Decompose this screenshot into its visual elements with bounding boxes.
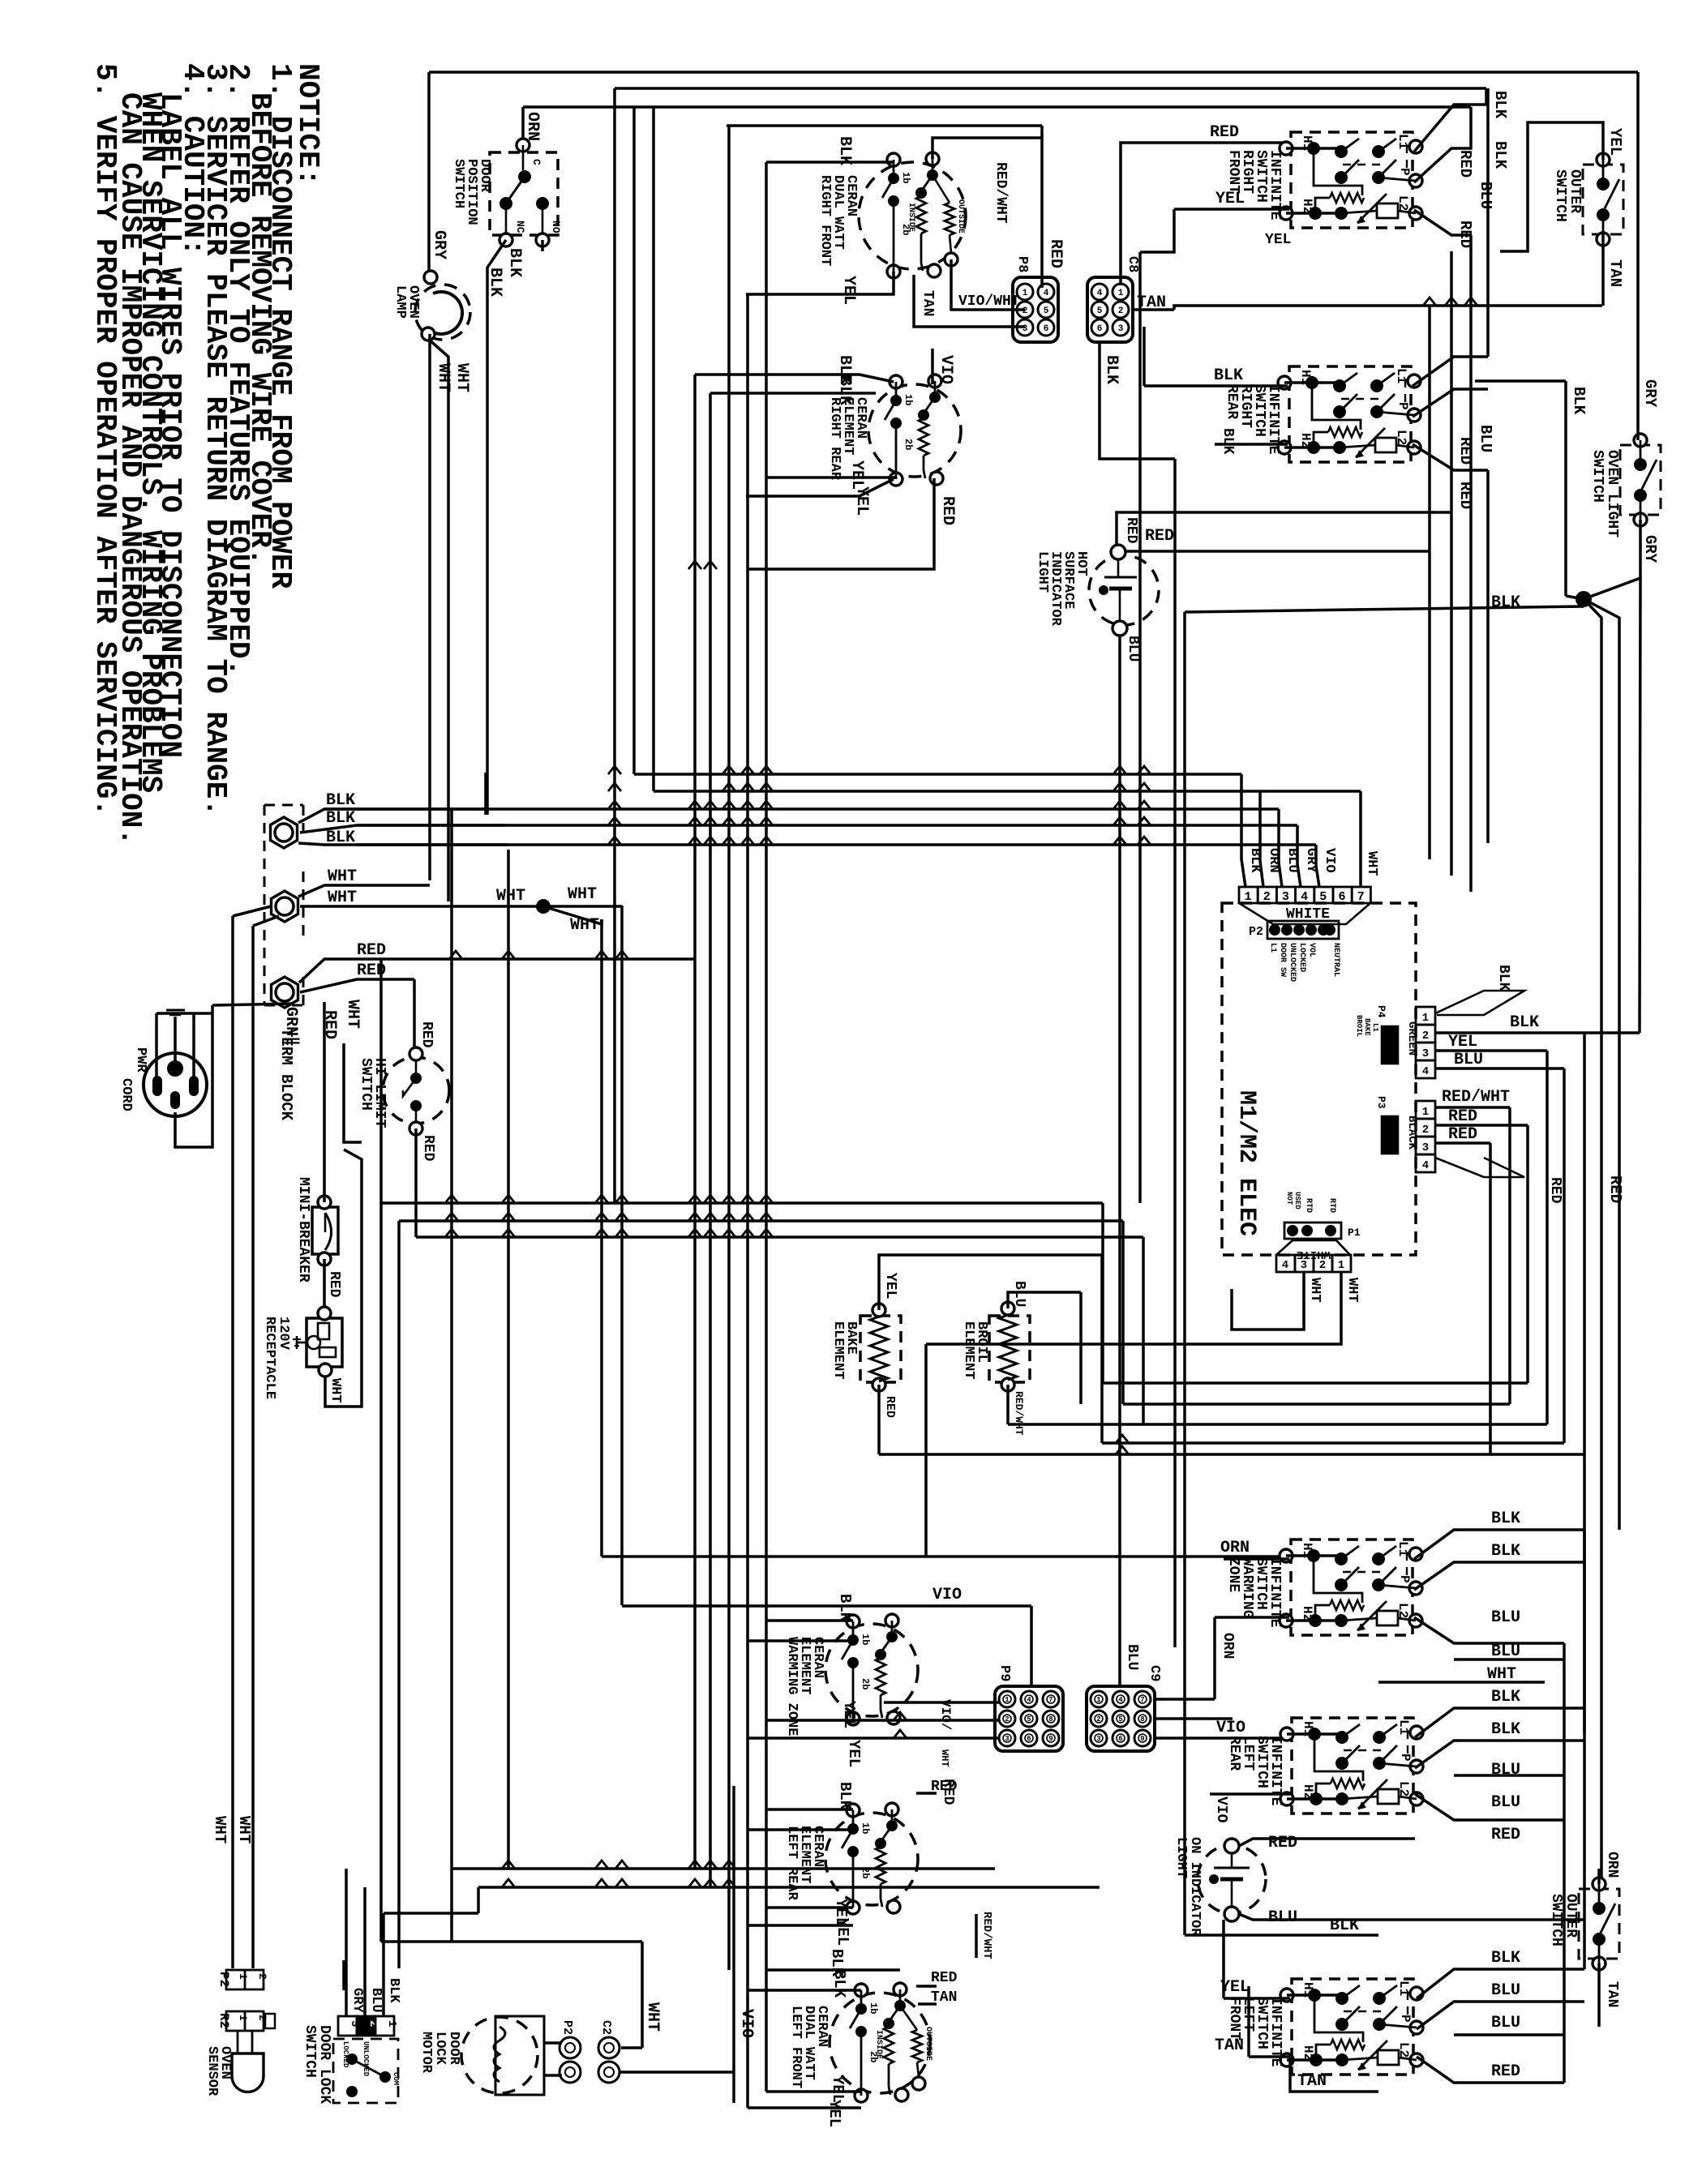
svg-text:2: 2: [1005, 1715, 1009, 1724]
svg-text:REAR: REAR: [1226, 1736, 1242, 1771]
svg-text:BLU: BLU: [1477, 182, 1494, 209]
svg-text:2b: 2b: [860, 1867, 871, 1878]
svg-text:4: 4: [1097, 289, 1103, 298]
svg-text:PWR: PWR: [133, 1047, 148, 1073]
svg-text:2: 2: [1319, 1259, 1326, 1272]
svg-text:BLK: BLK: [1220, 428, 1236, 455]
wire VIO drop to P9: [1030, 1606, 1033, 1688]
surface element CERAN ELEMENT WARMING ZONE: [825, 1624, 918, 1716]
svg-text:1b: 1b: [868, 2002, 879, 2014]
wire GRY bottom + junction: [1566, 520, 1640, 599]
right bundle y=1757: [1143, 1423, 1547, 1426]
wire from door switch NO: [541, 240, 544, 251]
svg-text:P1: P1: [1348, 1227, 1361, 1239]
mid bus y=1042: [357, 843, 1316, 846]
svg-text:RED: RED: [1210, 123, 1239, 142]
wires BLK to WZ element: [766, 1619, 853, 1622]
svg-text:ORN: ORN: [1220, 1633, 1236, 1659]
svg-text:5: 5: [1118, 1715, 1122, 1724]
term block stud RED: [272, 977, 298, 1008]
wire RED/WHT: [932, 138, 1042, 159]
wire ORN to WZ H2: [1215, 1616, 1289, 1619]
svg-text:REAR: REAR: [1224, 384, 1240, 419]
mid bus y=955: [634, 773, 1241, 776]
svg-text:5: 5: [1044, 306, 1049, 316]
wire WHT x=424: [344, 1043, 362, 1142]
svg-text:YEL: YEL: [834, 1918, 851, 1946]
right rails from board wires: [1583, 1033, 1586, 1732]
wire BLK vertical x=1461: [1183, 612, 1186, 1935]
svg-text:1: 1: [237, 2015, 249, 2021]
svg-text:C: C: [530, 159, 542, 165]
wire VIO/WHT to P8 pin2: [951, 259, 1025, 310]
wires from C9 right: [1155, 1698, 1215, 1701]
wire verticals to bottom elements: [727, 1718, 731, 1970]
svg-text:WHT: WHT: [1364, 851, 1379, 876]
svg-text:7: 7: [1140, 1696, 1144, 1704]
svg-text:USED: USED: [1293, 1192, 1301, 1210]
svg-text:5: 5: [1097, 306, 1103, 316]
svg-text:9: 9: [1048, 1735, 1052, 1743]
svg-text:TAN: TAN: [920, 290, 936, 316]
svg-text:RED: RED: [1268, 1834, 1297, 1852]
wire RED term to breaker: [323, 1002, 326, 1202]
svg-text:H2: H2: [1300, 199, 1314, 214]
svg-text:2: 2: [1096, 1715, 1100, 1724]
wire BLK from door switch NC: [487, 240, 506, 815]
svg-text:RED: RED: [931, 1970, 958, 1986]
svg-text:P: P: [1398, 2015, 1413, 2023]
svg-text:L1: L1: [1268, 943, 1277, 953]
wire BLK to RR H1: [1144, 384, 1288, 388]
wire TAN vert: [1247, 1986, 1250, 2057]
wire TAN outer switch: [1601, 234, 1605, 306]
svg-text:1: 1: [385, 2020, 398, 2027]
svg-text:P9: P9: [997, 1665, 1012, 1681]
svg-text:BLACK: BLACK: [1405, 1116, 1418, 1150]
svg-text:RED: RED: [326, 1271, 342, 1298]
bake element: [860, 1316, 901, 1382]
svg-text:WHT: WHT: [235, 1816, 253, 1844]
svg-text:RED: RED: [1491, 2062, 1520, 2081]
wire WHT into pin7: [1359, 791, 1362, 887]
svg-text:2: 2: [1118, 306, 1124, 316]
surface element CERAN ELEMENT LEFT REAR: [825, 1813, 918, 1905]
svg-text:BLK: BLK: [486, 268, 504, 297]
svg-text:M1/M2 ELEC: M1/M2 ELEC: [1233, 1090, 1260, 1236]
wire bundle into P9: [884, 1701, 999, 1704]
svg-text:BLK: BLK: [1491, 141, 1509, 169]
wire VIO to LR switch: [1251, 1736, 1287, 1740]
wire breaker to receptacle: [323, 1259, 326, 1312]
svg-text:4: 4: [1282, 1259, 1288, 1272]
wires door lock bundle: [345, 1869, 348, 1990]
svg-text:SWITCH: SWITCH: [451, 159, 466, 208]
wire vertical x=565: [450, 1869, 453, 1942]
svg-text:4: 4: [1044, 289, 1049, 298]
wire TAN to P8 pin3: [914, 275, 1025, 327]
wire vertical x=742: [600, 919, 603, 1557]
infinite switch WARMING ZONE: [1291, 1540, 1413, 1635]
svg-text:3: 3: [1118, 324, 1124, 334]
svg-text:GRY: GRY: [349, 1988, 365, 2013]
svg-text:WHT: WHT: [434, 363, 452, 392]
svg-text:VIO/: VIO/: [938, 1699, 953, 1730]
wire x1411 vertical: [1143, 327, 1146, 386]
svg-text:L2: L2: [1395, 1603, 1410, 1618]
wire corner x=1385: [1121, 1221, 1125, 1404]
svg-text:BLU: BLU: [1125, 636, 1141, 662]
svg-text:YEL: YEL: [845, 1740, 863, 1767]
door lock motor: [461, 2017, 538, 2093]
svg-text:MOTOR: MOTOR: [418, 2032, 434, 2074]
wire WHT horizontal: [1378, 1681, 1545, 1684]
svg-text:1: 1: [1005, 1696, 1010, 1704]
wire RED vertical2: [1428, 306, 1431, 859]
P1 trapezoid: [1276, 1240, 1350, 1255]
svg-text:VIO: VIO: [932, 1586, 962, 1604]
svg-text:1: 1: [1422, 1106, 1429, 1119]
svg-text:L1: L1: [1395, 134, 1410, 149]
svg-text:NOT: NOT: [1285, 1192, 1293, 1205]
wire L1 RF to bus: [1414, 88, 1486, 152]
wire TAN to LF H2: [1249, 2055, 1290, 2058]
wire P4 pin2 BLK: [1435, 1031, 1640, 1034]
wire WZ L2: [1414, 1617, 1564, 1643]
svg-text:GRY: GRY: [1641, 535, 1659, 563]
right bundle y=1706: [1103, 1381, 1528, 1385]
mini-breaker: [312, 1207, 338, 1254]
power cord wires: [155, 1013, 158, 1078]
connector P9: [995, 1686, 1063, 1751]
svg-text:3: 3: [1301, 1259, 1307, 1272]
wire L2 RF: [1414, 210, 1471, 235]
svg-text:YEL: YEL: [825, 2100, 843, 2127]
wire vertical x=809: [652, 107, 655, 791]
wire LR L1: [1415, 1708, 1584, 1737]
door lock switch: [333, 2039, 398, 2103]
svg-text:SWITCH: SWITCH: [1552, 169, 1568, 222]
svg-text:R2: R2: [217, 2013, 231, 2028]
svg-text:L1: L1: [1396, 1981, 1411, 1996]
wire right vert x=1975 down: [1584, 599, 1601, 1886]
wire YEL vert: [1222, 1920, 1225, 1998]
svg-text:YEL: YEL: [847, 460, 866, 490]
svg-text:ELEMENT: ELEMENT: [830, 1321, 846, 1379]
svg-text:BLU: BLU: [1491, 1608, 1520, 1627]
right bundle y=1780: [1102, 1441, 1564, 1445]
wire YEL to LF H1: [1224, 1997, 1290, 2000]
svg-text:BLK: BLK: [1491, 1720, 1520, 1739]
svg-text:WHT: WHT: [328, 889, 357, 907]
svg-text:H2: H2: [1298, 433, 1313, 448]
lower bus y=1920 ORN: [602, 1555, 1288, 1558]
svg-text:WHT: WHT: [939, 1749, 950, 1767]
wires into door lock: [342, 1960, 345, 1990]
svg-text:BLK: BLK: [1491, 1688, 1520, 1707]
wire BLU2: [1454, 1774, 1564, 1777]
svg-text:GREEN: GREEN: [1405, 1021, 1418, 1056]
svg-text:INSIDE: INSIDE: [874, 2030, 883, 2059]
connector R2: [226, 2011, 264, 2031]
wire broil bottom to bundle: [1008, 1423, 1143, 1426]
svg-text:YEL: YEL: [840, 1701, 858, 1728]
svg-text:BLU: BLU: [1491, 1793, 1520, 1812]
wire TAN bottom: [1290, 2057, 1378, 2092]
wire P3 pin2 RED: [1435, 1124, 1528, 1127]
wire vertical x=1142: [924, 1344, 928, 1557]
svg-text:2b: 2b: [860, 1678, 871, 1689]
svg-text:LIGHT: LIGHT: [1035, 551, 1050, 593]
svg-text:RIGHT REAR: RIGHT REAR: [827, 397, 842, 481]
connector C8: [1087, 277, 1133, 342]
svg-text:FRONT: FRONT: [1226, 1997, 1242, 2041]
wire RED/WHT vertical x=1285: [1040, 126, 1044, 285]
svg-text:3: 3: [1005, 1735, 1009, 1743]
svg-text:BLU: BLU: [1491, 2014, 1520, 2032]
wires YEL from LR: [766, 1906, 853, 1909]
svg-text:P2: P2: [560, 2020, 574, 2035]
svg-text:RED: RED: [1456, 482, 1474, 509]
wire P3 pin3 RED: [1435, 1141, 1490, 1145]
svg-text:BLK: BLK: [1247, 848, 1263, 873]
svg-text:VIO: VIO: [1322, 848, 1337, 873]
svg-text:1b: 1b: [900, 172, 911, 183]
svg-text:RED/WHT: RED/WHT: [992, 162, 1009, 224]
svg-text:4: 4: [1118, 1696, 1123, 1704]
svg-text:8: 8: [1048, 1715, 1052, 1724]
wire motor to P2: [544, 2041, 562, 2045]
svg-text:BLK: BLK: [1510, 1013, 1539, 1032]
svg-text:BLK: BLK: [1491, 91, 1509, 119]
connector P2 (sensor): [226, 1970, 264, 1989]
svg-text:RED: RED: [1145, 527, 1174, 546]
svg-text:5: 5: [1027, 1715, 1031, 1724]
P1 header boxes: [1276, 1255, 1295, 1272]
svg-text:MINI-BREAKER: MINI-BREAKER: [295, 1177, 311, 1283]
svg-text:RED: RED: [1606, 1176, 1624, 1203]
wire WHT from P1 pin3: [1232, 1272, 1304, 1330]
svg-text:RED: RED: [1456, 437, 1474, 465]
wire BLU horizontal: [1454, 1658, 1564, 1661]
wire vertical x=857: [693, 375, 697, 1869]
svg-text:7: 7: [1048, 1696, 1052, 1704]
wire GRY top: [1636, 72, 1640, 440]
wire vertical x=922: [746, 294, 749, 1736]
wires BLK from term block: [298, 809, 486, 823]
wire P4 pin1 BLK flag: [1435, 991, 1524, 1015]
wire RED vertical: [1450, 251, 1453, 876]
svg-text:H1: H1: [1300, 135, 1314, 151]
svg-text:3: 3: [1422, 1047, 1429, 1060]
wire C2 pin2 to VIO: [619, 2071, 734, 2074]
surface element CERAN DUAL WATT LEFT FRONT: [830, 1993, 930, 2093]
svg-text:1: 1: [1338, 1259, 1344, 1272]
svg-text:GRN‖: GRN‖: [281, 1007, 300, 1046]
svg-text:BLK: BLK: [326, 809, 355, 828]
svg-text:C8: C8: [1125, 256, 1140, 272]
svg-text:P2: P2: [1249, 925, 1263, 939]
svg-text:3: 3: [1422, 1141, 1429, 1154]
wire WHT receptacle loop: [325, 1150, 362, 1407]
svg-text:1: 1: [1096, 1696, 1101, 1704]
M1/M2 ELEC control board box: [1222, 903, 1416, 1255]
bottom bus y=2305: [452, 1867, 995, 1870]
wire TAN outer bottom: [1597, 1963, 1601, 2027]
wire VIO from RR top: [931, 349, 934, 384]
wire RED bake bottom: [877, 1385, 881, 1454]
wire VIO to LR H2: [1210, 1792, 1290, 1796]
svg-text:BLK: BLK: [1491, 1510, 1520, 1528]
svg-text:RTD: RTD: [1327, 1198, 1336, 1213]
svg-text:3: 3: [1096, 1735, 1100, 1743]
wire BLK to RR element: [710, 392, 876, 395]
svg-text:RED: RED: [1456, 150, 1474, 178]
svg-text:GRY: GRY: [430, 230, 448, 259]
svg-text:RED: RED: [1448, 1125, 1477, 1144]
door lock switch connector: [338, 2016, 357, 2036]
wire WHT from P1 pin1: [926, 1272, 1341, 1344]
svg-text:WHT: WHT: [568, 885, 597, 904]
svg-text:BLK: BLK: [830, 1970, 848, 1998]
wire WZ L1: [1414, 1530, 1584, 1559]
svg-text:7: 7: [1357, 890, 1365, 904]
hi limit switch: [383, 1057, 449, 1124]
svg-text:H2: H2: [1301, 1784, 1315, 1800]
wire corner x=1410: [1142, 1237, 1145, 1424]
wire VIO vertical x=905: [732, 1786, 735, 2103]
svg-text:2: 2: [367, 2020, 379, 2027]
svg-text:1: 1: [1422, 1012, 1429, 1025]
wire ORN to WZ H1: [1224, 1557, 1289, 1561]
low bus y=1506: [399, 1219, 1123, 1223]
svg-text:LOCKED: LOCKED: [341, 2041, 349, 2068]
svg-text:BLK: BLK: [835, 136, 854, 165]
svg-text:H1: H1: [1301, 1721, 1315, 1736]
wire RR L2: [1413, 444, 1488, 470]
wire right vert x=1997 down: [1584, 599, 1619, 1530]
broil element: [989, 1316, 1030, 1382]
svg-text:YEL: YEL: [839, 276, 858, 305]
wire RED vertical x=492: [397, 1221, 401, 1968]
mid bus y=976: [654, 790, 1361, 793]
wire vertical x=590: [477, 1887, 480, 1913]
connector C2: [598, 2037, 619, 2058]
svg-text:TAN: TAN: [1604, 1981, 1620, 2007]
svg-text:2: 2: [1422, 1030, 1429, 1043]
wire RR P: [1413, 389, 1488, 417]
svg-text:FRONT: FRONT: [1225, 150, 1241, 194]
svg-text:BLK: BLK: [1570, 387, 1588, 415]
svg-text:SWITCH: SWITCH: [358, 1058, 374, 1111]
svg-text:H1: H1: [1298, 370, 1313, 385]
svg-text:BLU: BLU: [1284, 848, 1300, 873]
svg-text:6: 6: [1097, 324, 1103, 334]
svg-text:YEL: YEL: [882, 1273, 898, 1299]
svg-text:BLK: BLK: [326, 791, 355, 810]
svg-text:SWITCH: SWITCH: [302, 2025, 318, 2078]
svg-text:6: 6: [1044, 324, 1049, 334]
svg-text:WHT: WHT: [343, 1000, 362, 1029]
wire vertical x=945: [765, 162, 768, 1754]
wire vertical x=627: [507, 850, 510, 1869]
wire vertical x=557: [450, 809, 453, 1869]
wire RED vertical x=470: [379, 959, 383, 1942]
wire YEL from RF element: [746, 272, 894, 294]
svg-text:1: 1: [1118, 289, 1124, 298]
low bus y=1526: [416, 1235, 1143, 1239]
svg-text:LIGHT: LIGHT: [1173, 1837, 1189, 1878]
wire LR L2: [1415, 1794, 1564, 1820]
svg-text:P8: P8: [1014, 256, 1030, 272]
svg-text:WHT: WHT: [1307, 1278, 1323, 1303]
svg-text:RED: RED: [1491, 1826, 1520, 1844]
WHT junction dot: [536, 899, 551, 914]
connector P8: [1013, 277, 1058, 342]
wire RED from RR element: [748, 478, 934, 569]
svg-text:VIO: VIO: [1216, 1719, 1245, 1737]
svg-text:BAKE: BAKE: [1363, 1018, 1371, 1036]
svg-text:LOCKED: LOCKED: [1297, 943, 1306, 972]
svg-text:4: 4: [1422, 1159, 1429, 1172]
svg-text:BLU: BLU: [1491, 1981, 1520, 2000]
wire WHT from oven lamp: [428, 334, 431, 880]
svg-text:OUTSIDE: OUTSIDE: [956, 199, 965, 233]
wires BLK to LR element: [766, 1808, 853, 1811]
wire BLU broil top: [1008, 1292, 1081, 1308]
bottom bus y=2328: [478, 1886, 1100, 1889]
wires to LF element: [766, 1968, 900, 1972]
svg-text:H2: H2: [1301, 2045, 1315, 2061]
svg-text:WHT: WHT: [452, 363, 471, 392]
wire ORN vertical: [1213, 1617, 1216, 1699]
wire x=1359 drop: [1100, 1255, 1104, 1443]
wire LF L2: [1417, 2057, 1564, 2083]
svg-text:6: 6: [1118, 1735, 1122, 1743]
wire right vert x=2022 down: [1640, 578, 1640, 1033]
infinite switch RIGHT REAR: [1289, 366, 1411, 462]
svg-text:L1: L1: [1395, 1541, 1410, 1557]
wire vertical x=1406: [1138, 252, 1142, 1203]
wire WHT diagonal down: [543, 906, 602, 924]
svg-text:2: 2: [256, 1973, 268, 1980]
wire YEL2: [766, 477, 894, 479]
svg-text:GRY: GRY: [1303, 848, 1318, 873]
svg-text:TAN: TAN: [1297, 2072, 1327, 2091]
svg-text:OUTSIDE: OUTSIDE: [924, 2027, 932, 2061]
wire YEL drop: [1140, 209, 1174, 252]
wire corner x=1360: [1101, 1203, 1104, 1383]
svg-text:YEL: YEL: [852, 486, 871, 516]
svg-text:BLK: BLK: [1495, 965, 1511, 991]
svg-text:RED: RED: [883, 1396, 897, 1418]
wires YEL from LF: [766, 2090, 861, 2093]
wire WHT pair verticals: [231, 916, 234, 1968]
wire LR P: [1415, 1741, 1584, 1768]
svg-text:ORN: ORN: [1604, 1852, 1620, 1878]
svg-text:YEL: YEL: [1215, 190, 1245, 208]
svg-text:BLK: BLK: [1214, 366, 1243, 385]
svg-text:ORN: ORN: [1220, 1539, 1250, 1557]
connector P2 (motor): [559, 2037, 581, 2058]
wire RED from LR: [916, 1792, 937, 1795]
switch OUTER SWITCH (bottom): [1579, 1889, 1619, 1959]
svg-text:DOOR SW: DOOR SW: [1278, 943, 1287, 977]
svg-text:RECEPTACLE: RECEPTACLE: [262, 1317, 277, 1399]
wire YEL from RR: [746, 479, 894, 496]
wire P RF: [1414, 107, 1471, 182]
wire BLK to RR H2: [1215, 443, 1288, 446]
